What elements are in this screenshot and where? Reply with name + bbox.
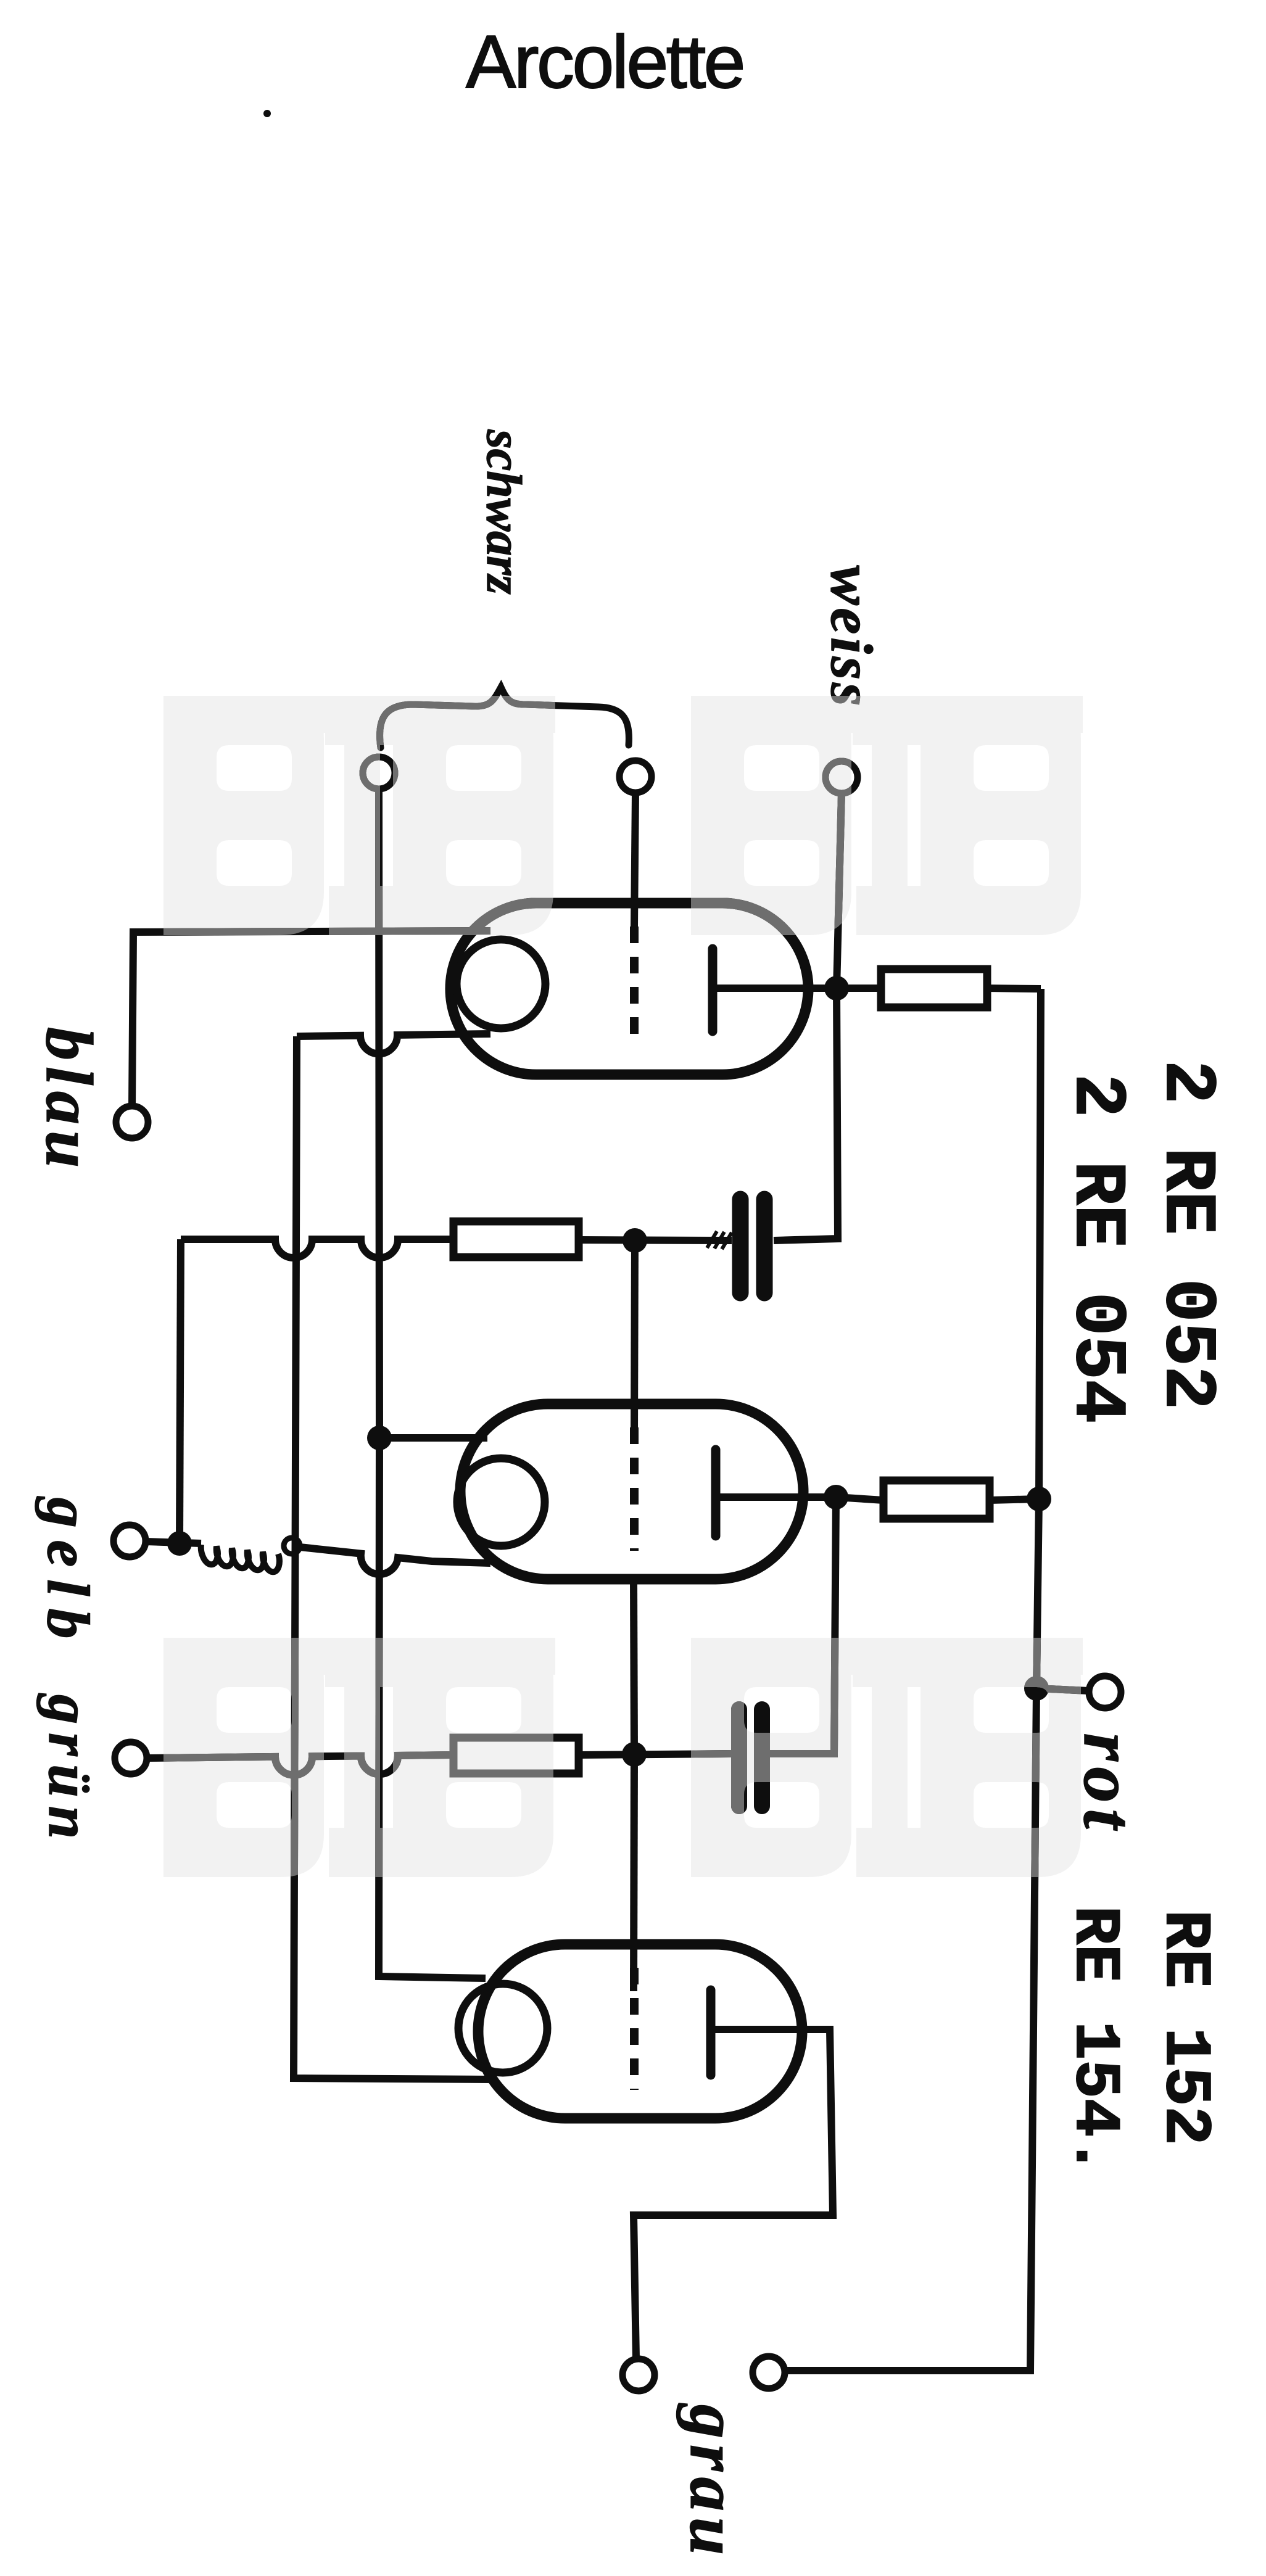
resistor R4 bbox=[883, 1480, 990, 1519]
junction schwarz rail / V2 filament bbox=[367, 1426, 392, 1450]
junction V1 anode / weiss bbox=[824, 976, 849, 1001]
wire gelb row to V2 filament bottom bbox=[300, 1547, 490, 1574]
wire rot terminal stub bbox=[1036, 1688, 1089, 1691]
tube V3 grid (dashed) bbox=[630, 1968, 639, 2090]
junction gruen row / V3 grid bbox=[622, 1742, 647, 1767]
wire V2 grid feed bbox=[634, 1241, 635, 1437]
wire V1 filament bottom to left rail bbox=[297, 1034, 490, 1054]
wire left rail x476 down to V3 filament bottom bbox=[294, 1036, 492, 2079]
wire schwarz rail x614 bbox=[379, 789, 486, 1978]
wire blau terminal riser bbox=[132, 931, 490, 1107]
wire anode supply rail right bbox=[785, 989, 1041, 2371]
wire V3 anode loop bbox=[634, 2029, 833, 2359]
speck top left bbox=[263, 110, 271, 117]
wire C2 to V2 anode node bbox=[770, 1497, 836, 1754]
svg-text:RE 152: RE 152 bbox=[1148, 1910, 1222, 2145]
junction grid row 1 / C1 bbox=[623, 1228, 647, 1253]
wire gelb terminal to coil bbox=[146, 1542, 201, 1543]
svg-text:gelb: gelb bbox=[35, 1496, 101, 1651]
resistor R4 leads bbox=[836, 1497, 1039, 1500]
wire grid feed from schwarz terminal B into V1 bbox=[634, 793, 635, 927]
wire V2 envelope bottom to gruen row bbox=[634, 1579, 634, 1754]
svg-text:2 RE 052: 2 RE 052 bbox=[1145, 1060, 1227, 1410]
svg-text:schwarz: schwarz bbox=[476, 429, 531, 595]
wire V2 anode to node bbox=[716, 1493, 836, 1501]
wire weiss column down to coupling row bbox=[774, 988, 838, 1241]
terminal schwarz B bbox=[619, 761, 652, 793]
junction R4 / supply rail bbox=[1027, 1487, 1051, 1511]
tube V2 grid (dashed) bbox=[630, 1427, 639, 1551]
tube V1 grid (dashed) bbox=[630, 927, 639, 1046]
wire R3 to C2 bbox=[579, 1754, 732, 1755]
resistor R3 bbox=[453, 1738, 579, 1773]
wire weiss terminal drop bbox=[837, 793, 842, 988]
watermark BTB letters bbox=[163, 696, 1083, 1877]
wire V2 filament top from schwarz rail bbox=[379, 1434, 487, 1442]
terminal anode bottom bbox=[623, 2359, 655, 2391]
capacitor C2 left plate bbox=[731, 1709, 747, 1806]
svg-text:grün: grün bbox=[36, 1693, 102, 1847]
junction V2 anode / C2 bbox=[824, 1485, 848, 1509]
hatch ticks before C1 bbox=[707, 1231, 732, 1249]
terminal grau bbox=[753, 2356, 785, 2388]
svg-text:grau: grau bbox=[676, 2403, 751, 2561]
svg-text:blau: blau bbox=[32, 1027, 105, 1174]
tube V1 envelope bbox=[450, 903, 808, 1075]
capacitor C2 right plate bbox=[754, 1709, 770, 1806]
tube V3 anode bar bbox=[706, 1990, 716, 2075]
wire V1 anode to weiss node bbox=[713, 985, 837, 992]
capacitor C1 right plate bbox=[756, 1199, 773, 1293]
resistor R2 bbox=[453, 1221, 579, 1257]
brace schwarz pair bbox=[380, 687, 629, 748]
tube V3 filament circle bbox=[458, 1984, 547, 2073]
tube V1 anode bar bbox=[708, 949, 718, 1031]
small loop at coil end bbox=[284, 1538, 300, 1554]
wire R2 to C1 bbox=[579, 1240, 732, 1241]
wire V3 grid feed bbox=[634, 1754, 634, 1991]
svg-text:weiss: weiss bbox=[819, 565, 885, 709]
tube V2 filament circle bbox=[457, 1458, 545, 1546]
junction rot tap / supply rail bbox=[1024, 1676, 1049, 1701]
tube V2 anode bar bbox=[711, 1450, 721, 1536]
terminal blau bbox=[116, 1106, 148, 1138]
resistor R1 leads bbox=[837, 988, 1041, 989]
terminal schwarz A bbox=[363, 757, 395, 789]
junction gelb terminal riser bbox=[167, 1531, 192, 1556]
terminal rot bbox=[1089, 1676, 1121, 1708]
tube V3 envelope bbox=[478, 1944, 802, 2118]
terminal gelb bbox=[114, 1525, 146, 1557]
svg-text:Arcolette: Arcolette bbox=[466, 20, 743, 104]
coil L1 bbox=[201, 1545, 279, 1572]
tube V2 envelope bbox=[460, 1404, 803, 1579]
resistor R1 bbox=[881, 969, 987, 1007]
capacitor C1 left plate bbox=[732, 1199, 749, 1293]
terminal gruen bbox=[115, 1742, 147, 1774]
wire grid row 1 (left corner to C1) bbox=[181, 1239, 453, 1258]
svg-text:RE 154.: RE 154. bbox=[1057, 1906, 1130, 2176]
wire gruen row bbox=[147, 1755, 453, 1775]
wire grid row1 left drop bbox=[180, 1239, 181, 1543]
tube V1 filament circle bbox=[457, 939, 545, 1028]
terminal weiss bbox=[825, 761, 858, 793]
svg-text:2 RE 054: 2 RE 054 bbox=[1055, 1074, 1137, 1424]
